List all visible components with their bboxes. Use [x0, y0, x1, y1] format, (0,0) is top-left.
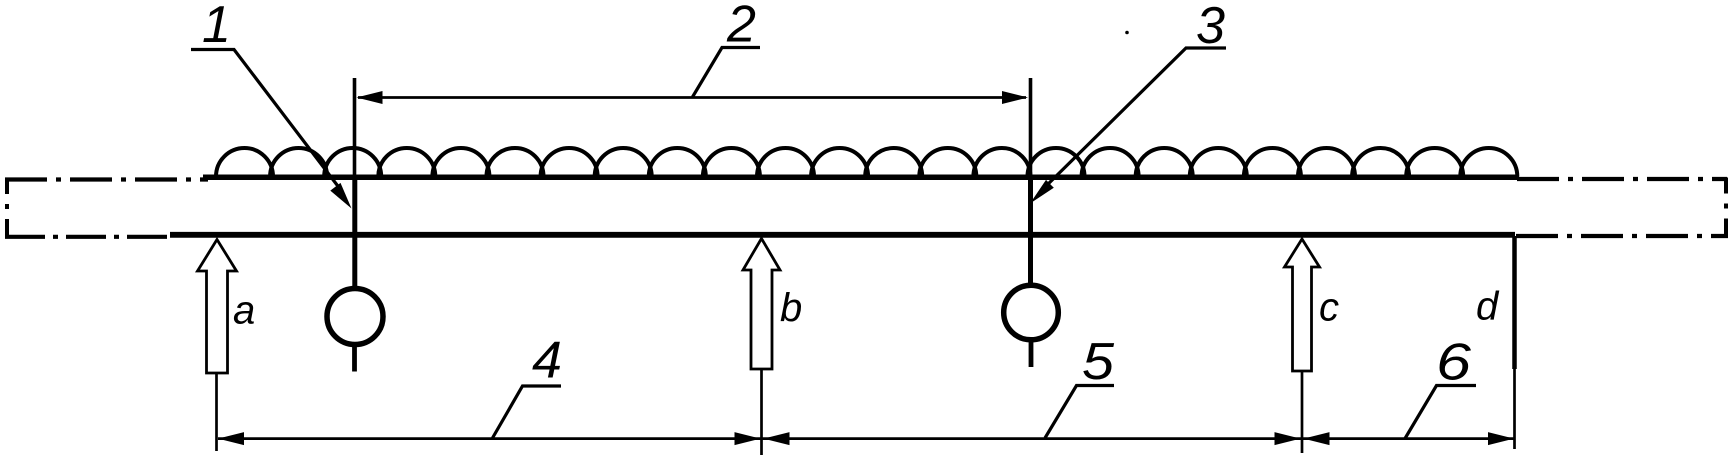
svg-text:5: 5 — [1082, 333, 1115, 391]
leader for label 4 — [493, 386, 562, 438]
wire centerline top-left dash-dot — [5, 177, 208, 181]
svg-text:1: 1 — [202, 0, 231, 54]
roller 2 circle — [1004, 285, 1059, 340]
leader for label 3 — [1041, 48, 1226, 191]
bottom dim arrowhead left-pointing at b — [764, 432, 790, 445]
bottom dim right arrowhead at d — [1488, 432, 1514, 445]
wire centerline bottom-left dash-dot — [5, 235, 175, 239]
strip top edge — [203, 175, 1519, 181]
leader for label 2 — [693, 48, 761, 98]
hollow arrow a — [198, 240, 237, 374]
wire below arrow b — [760, 369, 763, 455]
leader 1 arrowhead — [330, 183, 351, 209]
wire centerline top-right dash-dot — [1517, 177, 1727, 181]
roller 1 stub below — [352, 341, 357, 372]
wire centerline bottom-right dash-dot — [1516, 234, 1728, 238]
roller 2 stub below — [1029, 337, 1034, 367]
svg-text:a: a — [233, 289, 255, 333]
bottom dim arrowhead left-pointing at c — [1304, 432, 1330, 445]
leader for label 1 — [191, 50, 342, 192]
bottom dimension line — [218, 437, 1514, 440]
wire below arrow a — [215, 373, 218, 451]
strip bottom edge — [170, 232, 1515, 238]
leader 3 arrowhead — [1030, 180, 1054, 204]
node d thick vertical — [1512, 236, 1517, 369]
speck — [1125, 31, 1129, 35]
svg-text:6: 6 — [1436, 334, 1471, 392]
bottom dim arrowhead right-pointing at c — [1275, 432, 1301, 445]
dimension line 2 — [358, 96, 1026, 99]
leader for label 5 — [1045, 386, 1114, 439]
wire below node d — [1513, 369, 1516, 449]
node vertical line through roller 1 — [353, 78, 357, 180]
svg-text:3: 3 — [1196, 0, 1225, 55]
bottom dim left arrowhead at a — [218, 432, 244, 445]
svg-text:4: 4 — [532, 332, 562, 390]
wire centerline left vertical connector — [5, 178, 9, 238]
wire below arrow c — [1301, 371, 1304, 453]
roller 1 circle — [327, 289, 383, 345]
svg-text:b: b — [780, 286, 802, 330]
node vertical line through roller 2 — [1029, 78, 1033, 180]
dimension 2 left arrowhead — [357, 91, 383, 104]
svg-text:d: d — [1476, 285, 1500, 329]
hollow arrow c — [1285, 239, 1320, 371]
hollow arrow b — [743, 239, 780, 370]
wire centerline right vertical connector — [1724, 178, 1728, 238]
svg-text:2: 2 — [726, 0, 756, 54]
weld bead scallops — [216, 148, 1517, 177]
bottom dim arrowhead right-pointing at b — [735, 432, 761, 445]
leader for label 6 — [1405, 386, 1476, 439]
svg-text:c: c — [1319, 286, 1339, 330]
dimension 2 right arrowhead — [1002, 91, 1028, 104]
